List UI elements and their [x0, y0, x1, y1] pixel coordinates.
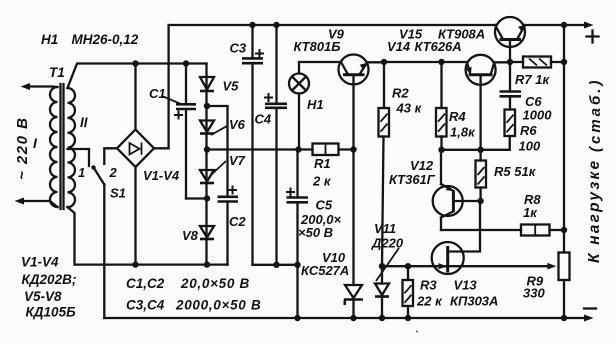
label V11 with leader [371, 221, 404, 281]
svg-text:V7: V7 [229, 153, 246, 168]
resistor R6 [505, 110, 516, 150]
wire gate line [382, 263, 447, 269]
label H1 near lamp [307, 97, 324, 112]
svg-text:КТ626А: КТ626А [415, 39, 462, 54]
wire top bus [169, 22, 594, 29]
label R1 [312, 156, 332, 189]
wire diode chain column [205, 64, 207, 265]
label output plus [587, 31, 599, 43]
transistor V14 [466, 55, 510, 150]
wire mid bus to bottom bus drop [296, 265, 298, 318]
label parts list [21, 255, 76, 320]
wire source line to R9 wiper arrow [448, 263, 557, 270]
node H1 bottom [295, 146, 301, 152]
wire bridge bottom riser [134, 167, 136, 265]
label C6 R6 [519, 94, 553, 154]
resistor R7 [510, 57, 564, 68]
diode V6 [200, 121, 214, 134]
label capacitor values [126, 276, 261, 313]
wire V12 collector to R8 [441, 229, 521, 231]
svg-text:20,0×50 В: 20,0×50 В [180, 276, 250, 291]
node chain C2 branch [204, 103, 210, 109]
svg-text:Н1: Н1 [307, 97, 324, 112]
label H1 lamp type [41, 32, 139, 47]
node C5 mid bus [294, 262, 300, 268]
transistor V15 [495, 17, 525, 62]
svg-text:V5-V8: V5-V8 [24, 289, 62, 304]
node R8 right [561, 227, 567, 233]
label 220V rotated [14, 117, 31, 180]
node V11 bottom bus [379, 315, 385, 321]
resistor R4 [436, 62, 447, 150]
wire secondary tap to contact 1 [68, 149, 90, 166]
svg-text:22 к: 22 к [416, 294, 443, 309]
svg-text:Т1: Т1 [49, 65, 65, 80]
svg-text:V14: V14 [387, 39, 411, 54]
transformer T1 primary winding I [50, 87, 58, 207]
label V14 [387, 39, 462, 54]
label V9 [294, 27, 345, 55]
svg-text:V13: V13 [454, 278, 478, 293]
zener V10 [344, 150, 363, 319]
wire bridge right to top bus [154, 25, 169, 148]
svg-text:~ 220 В: ~ 220 В [14, 117, 31, 180]
label C5 with leader [298, 198, 342, 241]
svg-text:КТ801Б: КТ801Б [294, 39, 341, 54]
label C4 [255, 112, 272, 127]
svg-text:КП303А: КП303А [450, 294, 498, 309]
resistor R8 [521, 225, 564, 236]
wire mid bus right segment [253, 264, 298, 266]
svg-text:КД105Б: КД105Б [26, 305, 77, 320]
svg-text:V8: V8 [182, 228, 199, 243]
capacitor C5 [286, 150, 308, 265]
resistor R2 [379, 62, 390, 266]
lamp H1 [289, 62, 309, 150]
wire emitter rail V9 to V14 [382, 61, 467, 63]
svg-text:V1-V4: V1-V4 [143, 168, 180, 183]
transistor V13 [432, 201, 480, 274]
svg-text:1: 1 [78, 165, 85, 180]
label V7 with leader [212, 153, 246, 174]
label R9 [523, 274, 545, 301]
wire C1 bottom to chain [186, 197, 207, 199]
node chain C1 bottom [204, 195, 210, 201]
svg-text:С5: С5 [316, 198, 333, 213]
label winding I [33, 135, 38, 151]
capacitor C3 [242, 25, 264, 265]
diode V8 [200, 226, 214, 239]
node R3 bottom bus [405, 315, 411, 321]
switch S1 lever [91, 165, 104, 184]
capacitor C1 [174, 64, 196, 199]
node C4 mid bus [273, 262, 279, 268]
svg-text:Н1: Н1 [41, 32, 58, 47]
diode V5 [200, 77, 214, 91]
label winding II [80, 115, 88, 130]
label V6 with leader [211, 117, 246, 135]
svg-text:(стаб.): (стаб.) [587, 78, 604, 152]
wire primary top lead with arrow [21, 83, 58, 90]
label R8 [523, 192, 541, 220]
node V10 bottom bus [350, 315, 356, 321]
label stab rotated [587, 78, 604, 152]
svg-text:1,8к: 1,8к [450, 125, 476, 140]
label T1 [49, 65, 65, 80]
transformer T1 core [61, 84, 64, 209]
node drop bottom bus [294, 315, 300, 321]
node V15 base junction [507, 59, 513, 65]
wire H1 to V9 collector [299, 61, 341, 63]
svg-text:S1: S1 [110, 186, 126, 201]
node chain mid line [204, 146, 210, 152]
node C4 top bus [273, 22, 279, 28]
diode V11 [375, 266, 389, 318]
svg-text:R7 1к: R7 1к [515, 72, 550, 87]
svg-text:КС527А: КС527А [301, 263, 349, 278]
label R2 [392, 86, 423, 116]
wire bridge left to contact 2 [104, 148, 117, 164]
node bridge bottom on mid bus [132, 261, 138, 267]
node V12 base junction [477, 198, 483, 204]
svg-text:С3: С3 [230, 41, 247, 56]
node output plus [561, 22, 567, 28]
svg-text:С3,С4: С3,С4 [126, 298, 165, 313]
node C1 top [183, 60, 189, 66]
label K nagruzke rotated [586, 159, 603, 263]
capacitor C4 [264, 25, 287, 265]
label output minus [584, 307, 596, 309]
speck [416, 331, 418, 333]
svg-text:II: II [80, 115, 88, 130]
label R5 [494, 164, 537, 179]
svg-text:2 к: 2 к [312, 174, 332, 189]
wire base rail under V14 [442, 149, 510, 151]
svg-text:КД202В;: КД202В; [22, 272, 77, 287]
svg-text:R6: R6 [520, 123, 537, 138]
rectifier bridge V1-V4 [117, 130, 154, 168]
node R7 right [561, 59, 567, 65]
wire bottom bus [104, 315, 593, 322]
label V5 [223, 79, 240, 94]
label R3 [416, 278, 443, 309]
label C1 with leader [149, 86, 181, 104]
svg-text:1000: 1000 [523, 108, 553, 123]
wire mid line R1 row [207, 148, 354, 150]
svg-text:R5 51к: R5 51к [494, 164, 537, 179]
label C3 [230, 41, 247, 56]
svg-text:43 к: 43 к [396, 101, 423, 116]
label C2 [229, 214, 246, 229]
label V15 [399, 27, 485, 42]
transistor V9 [339, 55, 383, 150]
wire S1 pole down to bottom bus [103, 185, 105, 319]
svg-text:V11: V11 [374, 221, 396, 236]
svg-text:С2: С2 [229, 214, 246, 229]
svg-text:2: 2 [109, 165, 118, 180]
node R4 bottom [438, 147, 444, 153]
svg-text:V12: V12 [410, 158, 434, 173]
wire secondary bottom to mid bus [68, 207, 228, 265]
svg-text:С1: С1 [149, 86, 166, 101]
label V8 [182, 228, 199, 243]
node R1 right [350, 146, 356, 152]
svg-text:R1: R1 [314, 156, 331, 171]
wire primary bottom lead with arrow [15, 198, 58, 208]
node R3 top [405, 263, 411, 269]
resistor R3 [403, 266, 414, 318]
label V12 [389, 158, 436, 187]
label R4 [449, 109, 476, 140]
transistor V12 [433, 150, 481, 230]
wire bridge top riser [134, 64, 136, 130]
wire right vertical rail [563, 25, 565, 318]
transformer T1 secondary winding II [68, 88, 75, 207]
svg-text:V5: V5 [223, 79, 240, 94]
svg-text:МН26-0,12: МН26-0,12 [72, 32, 139, 47]
label contact 2 [109, 165, 118, 180]
svg-text:К нагрузке: К нагрузке [586, 159, 603, 263]
svg-text:I: I [33, 135, 38, 151]
label S1 [110, 186, 126, 201]
resistor R9 potentiometer [559, 253, 570, 281]
node R4 top [438, 59, 444, 65]
label V10 [301, 250, 349, 278]
label R7 [515, 72, 550, 87]
node V14 base bottom [477, 147, 483, 153]
capacitor C2 [207, 106, 238, 265]
svg-text:330: 330 [523, 286, 545, 301]
label V13 [450, 278, 498, 309]
node R2 top [381, 59, 387, 65]
node chain bottom [204, 261, 210, 267]
node R9 bottom bus [561, 315, 567, 321]
svg-text:КТ361Г: КТ361Г [389, 172, 436, 187]
label V1-V4 bridge [143, 168, 180, 183]
svg-text:R3: R3 [420, 278, 437, 293]
capacitor C6 [500, 62, 522, 110]
svg-text:V1-V4: V1-V4 [21, 255, 59, 270]
svg-text:×50 В: ×50 В [298, 225, 333, 240]
node V11 top [379, 263, 385, 269]
node bridge top AC [132, 60, 138, 66]
svg-text:С1,С2: С1,С2 [126, 276, 165, 291]
svg-text:100: 100 [519, 139, 541, 154]
svg-text:С4: С4 [255, 112, 272, 127]
diode V7 [200, 170, 214, 183]
svg-text:R4: R4 [449, 109, 466, 124]
svg-text:R2: R2 [392, 86, 409, 101]
wire secondary top to AC line [68, 64, 207, 89]
label contact 1 [78, 165, 85, 180]
svg-text:2000,0×50 В: 2000,0×50 В [175, 298, 261, 313]
node C3 top bus [249, 22, 255, 28]
resistor R5 [476, 150, 487, 201]
svg-text:1к: 1к [523, 205, 538, 220]
svg-text:V6: V6 [229, 117, 246, 132]
resistor R1 [313, 144, 339, 156]
